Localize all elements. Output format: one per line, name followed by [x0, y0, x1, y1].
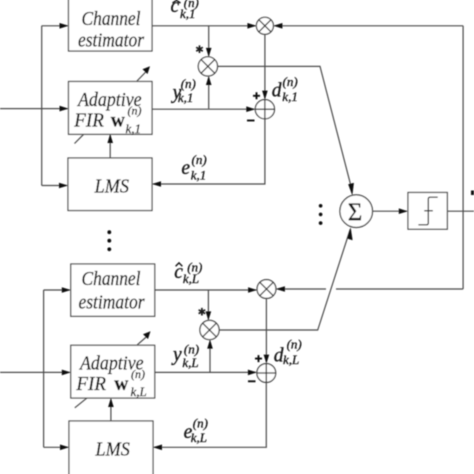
wire M4 output to Sigma: [219, 229, 350, 330]
arrow into decision box: [399, 208, 408, 214]
dots right middle: [319, 204, 323, 225]
box Channel estimator 2: [71, 264, 155, 316]
svg-text:e: e: [181, 158, 190, 179]
multiplier M3: [257, 280, 276, 299]
arrow into multiplier M3: [248, 287, 257, 293]
wire y2 output: [155, 371, 256, 373]
box LMS 1: [68, 158, 152, 211]
label d kL: [274, 337, 302, 367]
adder A1: [255, 100, 274, 119]
wire feedback bottom (with crossing gap): [277, 288, 463, 290]
label output b (clipped at edge): [471, 191, 474, 196]
wire left branch vertical 2: [43, 290, 45, 447]
svg-text:Channel: Channel: [82, 269, 141, 290]
svg-text:k,L: k,L: [283, 352, 299, 367]
wire A2 output to LMS2 (e kL): [154, 382, 266, 447]
svg-text:LMS: LMS: [94, 176, 129, 197]
svg-text:Channel: Channel: [82, 9, 141, 30]
svg-text:(n): (n): [283, 74, 298, 89]
svg-text:FIR: FIR: [75, 374, 106, 395]
plus sign A1: [253, 92, 260, 99]
wire A1 output to LMS1 (e k1): [153, 119, 265, 184]
arrow into M2 bottom: [206, 76, 212, 85]
arrow into LMS2 right: [153, 445, 162, 451]
svg-text:k,L: k,L: [191, 430, 207, 445]
wire left branch vertical 1: [41, 26, 43, 186]
wire branch to Channel estimator 1: [42, 25, 68, 27]
minus sign A1: [247, 120, 255, 122]
label y kL: [171, 342, 199, 370]
svg-text:k,L: k,L: [131, 384, 147, 399]
wire y1 output: [152, 108, 254, 110]
arrow into Channel estimator 1: [60, 23, 69, 29]
svg-text:w: w: [111, 110, 125, 131]
label e kL: [184, 415, 208, 445]
svg-text:k,L: k,L: [182, 355, 198, 370]
decision device box: [408, 193, 447, 230]
arrow into M2 top: [206, 48, 212, 57]
arrow into M4 bottom: [207, 340, 213, 349]
arrow into M3 right: [276, 286, 285, 292]
wire LMS1 to FIR1: [109, 135, 111, 158]
svg-text:k,1: k,1: [191, 168, 207, 183]
svg-text:c: c: [171, 0, 180, 17]
arrow into M4 top: [206, 311, 212, 320]
wire M1 down to adder A1: [264, 34, 266, 98]
svg-text:(n): (n): [181, 76, 196, 91]
label c_hat kL: [174, 259, 202, 286]
arrow into Sigma top: [348, 183, 354, 196]
wire y2 branch up into M4: [209, 341, 211, 373]
svg-text:k,1: k,1: [178, 90, 194, 105]
arrow into Channel estimator 2: [62, 287, 71, 293]
svg-text:k,L: k,L: [183, 271, 199, 286]
svg-text:(n): (n): [192, 152, 207, 167]
label d k1: [272, 74, 298, 104]
box LMS 2: [69, 421, 153, 474]
label y k1: [171, 76, 196, 105]
wire branch to LMS 1: [42, 185, 67, 187]
svg-text:estimator: estimator: [79, 293, 145, 314]
plus sign A2: [255, 355, 262, 362]
arrow into LMS1 right: [152, 181, 161, 187]
arrow into multiplier M1: [247, 23, 256, 29]
wire input 1: [0, 108, 68, 110]
svg-text:k,1: k,1: [180, 6, 196, 21]
wire y1 branch up into M2: [208, 77, 210, 109]
box Adaptive FIR w_kL: [71, 345, 155, 399]
svg-text:y: y: [171, 345, 182, 366]
minus sign A2: [248, 380, 256, 382]
label c_hat k1: [171, 0, 199, 21]
box Channel estimator 1: [69, 0, 153, 52]
summer Sigma: [340, 195, 373, 228]
arrow into FIR 1: [60, 106, 69, 112]
box Adaptive FIR w_k,1: [69, 82, 153, 137]
svg-text:FIR: FIR: [73, 110, 104, 131]
arrow into adder A1: [246, 106, 255, 112]
svg-text:(n): (n): [193, 415, 208, 430]
svg-text:(n): (n): [287, 337, 302, 352]
adder A2: [257, 364, 276, 383]
wire branch c1 down to M2: [208, 26, 210, 56]
wire feedback vertical: [462, 26, 464, 289]
arrow into M1 right: [273, 23, 282, 29]
arrow into adder A2: [248, 370, 257, 376]
svg-text:w: w: [114, 374, 128, 395]
svg-text:(n): (n): [131, 367, 145, 381]
arrow into LMS 2: [60, 445, 69, 451]
arrow into A2 top: [264, 355, 270, 364]
multiplier M4: [200, 320, 219, 339]
arrow into Sigma bottom: [347, 227, 352, 240]
adaptivity arrow on FIR 2: [75, 331, 151, 408]
wire c_hat 2 output: [155, 289, 257, 291]
wire M2 output to Sigma: [218, 66, 353, 191]
wire output: [447, 210, 474, 212]
wire feedback top: [274, 25, 463, 27]
svg-text:LMS: LMS: [95, 440, 130, 461]
asterisk conj 1: [196, 45, 203, 53]
wire LMS2 to FIR2: [110, 399, 112, 421]
svg-text:k,1: k,1: [126, 121, 142, 136]
wire branch to Channel estimator 2: [44, 289, 70, 291]
multiplier M2: [198, 57, 217, 76]
wire branch c2 down to M4: [207, 290, 209, 320]
arrow into LMS 1: [59, 183, 68, 189]
multiplier M1: [256, 17, 273, 34]
wire M3 down to adder A2: [265, 298, 267, 362]
wire c_hat 1 output: [152, 25, 256, 27]
svg-text:d: d: [272, 81, 282, 102]
arrow into FIR 2: [62, 370, 71, 376]
arrow into A1 top: [262, 91, 268, 100]
wire Sigma to decision box: [373, 210, 407, 212]
wire branch to LMS 2: [44, 446, 68, 448]
adaptivity arrow on FIR 1: [75, 66, 151, 143]
svg-text:(n): (n): [128, 104, 142, 118]
dots left middle: [107, 230, 111, 251]
asterisk conj 2: [199, 308, 206, 316]
label e k1: [181, 152, 206, 182]
arrow into FIR2 bottom: [108, 398, 114, 407]
arrow into FIR1 bottom: [107, 134, 113, 143]
svg-text:Σ: Σ: [348, 199, 363, 226]
svg-text:k,1: k,1: [282, 89, 298, 104]
svg-text:estimator: estimator: [78, 31, 144, 52]
wire input 2: [0, 371, 70, 373]
